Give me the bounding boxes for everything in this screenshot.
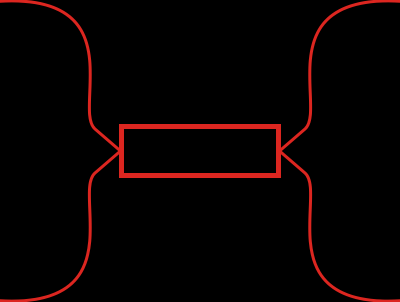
wire bottom-right (curved lead from bottom edge to right resistor terminal) [280, 151, 400, 301]
node left terminal junction [119, 150, 122, 153]
resistor R1 (box body) [122, 127, 279, 176]
wire bottom-left (curved lead from bottom edge to left resistor terminal) [0, 151, 121, 301]
node right terminal junction [278, 150, 281, 153]
wire top-left (curved lead from top edge to left resistor terminal) [0, 1, 121, 151]
wire top-right (curved lead from top edge to right resistor terminal) [280, 1, 400, 151]
